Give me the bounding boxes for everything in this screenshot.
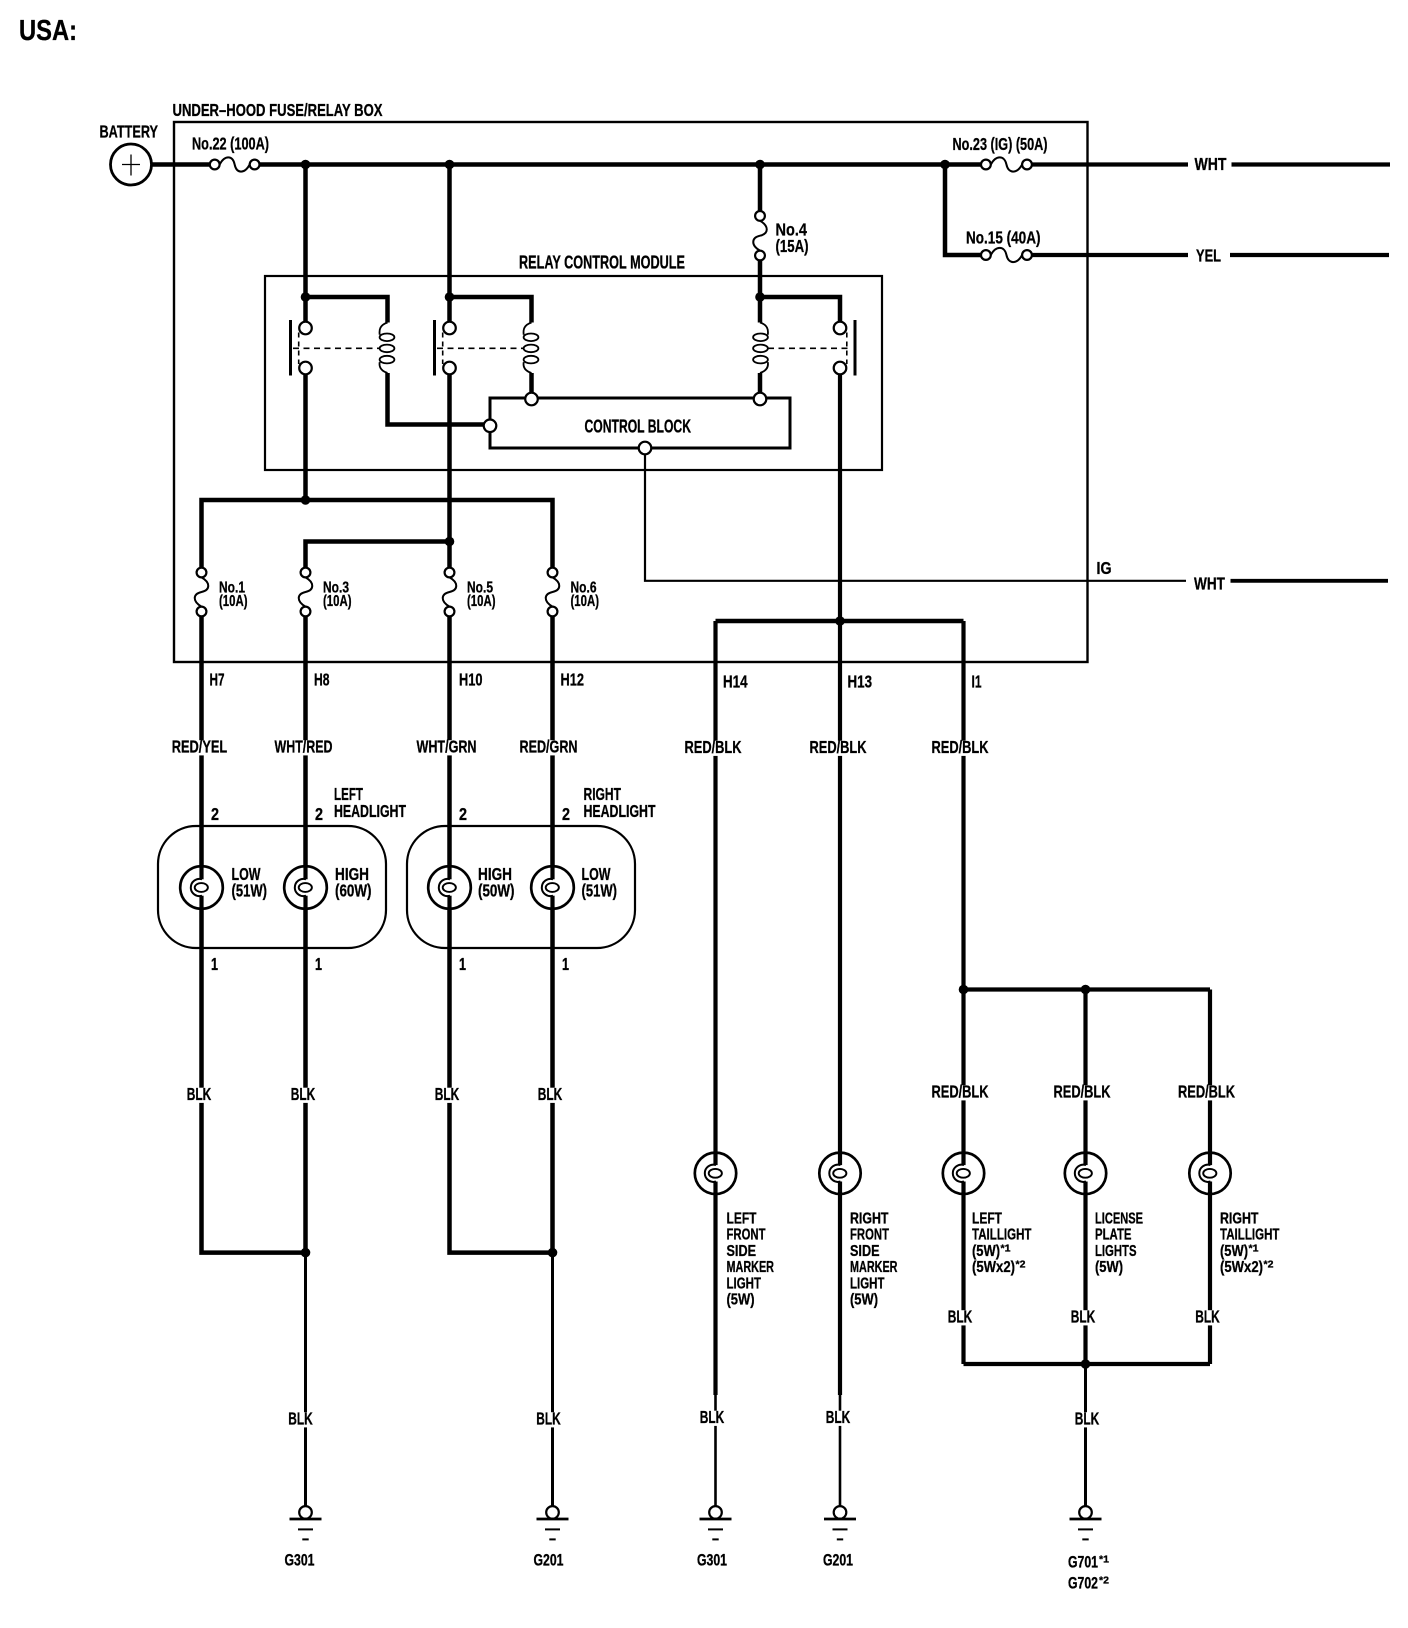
wire relay3 top to switch3 bbox=[760, 297, 840, 322]
svg-text:BLK: BLK bbox=[700, 1407, 725, 1427]
svg-text:H8: H8 bbox=[314, 670, 330, 690]
svg-text:2: 2 bbox=[211, 804, 219, 824]
svg-text:H13: H13 bbox=[848, 672, 873, 692]
svg-text:WHT: WHT bbox=[1194, 574, 1225, 594]
wire taillight ground bus bbox=[964, 1362, 1211, 1366]
node marker bus H13 bbox=[835, 616, 845, 626]
svg-text:LEFT: LEFT bbox=[727, 1211, 757, 1228]
fuse No.6 (10A) bbox=[548, 568, 558, 578]
svg-text:BLK: BLK bbox=[291, 1084, 316, 1104]
relay3 coil L3 bbox=[760, 323, 768, 335]
wire node-945 to fuse No.15 bbox=[945, 162, 981, 255]
wire label RED/BLK H14 bbox=[683, 741, 744, 756]
svg-text:2: 2 bbox=[459, 804, 467, 824]
wire label BLK right drop bbox=[534, 1412, 563, 1427]
relay control module box bbox=[265, 276, 882, 470]
wire label BLK left taillight bbox=[946, 1310, 975, 1325]
fuse No.23 (IG) (50A) bbox=[981, 160, 991, 170]
ground G201 marker bbox=[834, 1506, 847, 1519]
wire label BLK right taillight bbox=[1193, 1310, 1222, 1325]
svg-text:BLK: BLK bbox=[536, 1409, 561, 1429]
control block bbox=[490, 398, 790, 448]
svg-text:TAILLIGHT: TAILLIGHT bbox=[1220, 1227, 1280, 1244]
node bus-C bbox=[445, 160, 455, 170]
node fuse bus 1 bbox=[301, 495, 311, 505]
svg-text:H14: H14 bbox=[723, 672, 748, 692]
node bus-B bbox=[301, 160, 311, 170]
bulb right front side marker bbox=[819, 1153, 860, 1194]
svg-text:H10: H10 bbox=[459, 670, 483, 690]
relay1 switch bbox=[289, 320, 292, 376]
svg-text:FRONT: FRONT bbox=[850, 1227, 889, 1244]
svg-text:RED/BLK: RED/BLK bbox=[810, 737, 867, 757]
svg-text:1: 1 bbox=[459, 954, 466, 974]
svg-text:G301: G301 bbox=[285, 1552, 315, 1570]
wire coil2 to control block bbox=[529, 373, 534, 393]
under-hood fuse/relay box bbox=[174, 122, 1088, 662]
relay1 coil L1 bbox=[380, 323, 388, 335]
svg-text:*2: *2 bbox=[1264, 1259, 1274, 1271]
bulb right low bbox=[531, 866, 574, 909]
svg-text:FRONT: FRONT bbox=[727, 1227, 766, 1244]
svg-text:(10A): (10A) bbox=[467, 593, 496, 610]
svg-text:SIDE: SIDE bbox=[727, 1243, 757, 1260]
svg-text:H7: H7 bbox=[210, 670, 225, 690]
wire label BLK left drop bbox=[286, 1412, 315, 1427]
wire label RED/BLK license bbox=[1052, 1085, 1113, 1100]
svg-text:UNDER–HOOD FUSE/RELAY BOX: UNDER–HOOD FUSE/RELAY BOX bbox=[173, 100, 383, 120]
svg-text:MARKER: MARKER bbox=[850, 1259, 898, 1276]
wire label WHT/RED bbox=[273, 740, 335, 755]
fuse No.1 (10A) bbox=[197, 568, 207, 578]
wire fuse No.4 to relay3 bbox=[758, 261, 763, 323]
relay3 switch bbox=[854, 320, 857, 376]
node fuse bus 2 bbox=[445, 537, 455, 547]
wire relay2 top to coil2 bbox=[450, 297, 532, 323]
svg-text:No.23 (IG) (50A): No.23 (IG) (50A) bbox=[953, 134, 1048, 154]
svg-text:RIGHT: RIGHT bbox=[1220, 1211, 1259, 1228]
node rear bus left bbox=[959, 985, 969, 995]
wire coil1 to control block bbox=[388, 373, 484, 425]
relay2 coil L2 bbox=[524, 323, 532, 335]
wire trunk C from bus to relay2 switch bbox=[447, 165, 452, 322]
bulb right taillight bbox=[1189, 1153, 1230, 1194]
wire main power bus bbox=[260, 162, 982, 167]
svg-text:WHT/GRN: WHT/GRN bbox=[417, 737, 477, 757]
wire label RED/BLK H13 bbox=[808, 741, 869, 756]
svg-text:HEADLIGHT: HEADLIGHT bbox=[584, 801, 656, 821]
svg-text:RELAY CONTROL MODULE: RELAY CONTROL MODULE bbox=[519, 253, 685, 273]
bulb right high bbox=[428, 866, 471, 909]
svg-text:LIGHT: LIGHT bbox=[850, 1275, 885, 1292]
wire YEL out bbox=[1230, 253, 1389, 257]
svg-text:LICENSE: LICENSE bbox=[1095, 1211, 1143, 1228]
svg-text:RED/GRN: RED/GRN bbox=[520, 737, 578, 757]
wire rear feed bus bbox=[964, 987, 1211, 991]
pin control block top 2 bbox=[754, 393, 767, 406]
svg-text:BLK: BLK bbox=[435, 1084, 460, 1104]
svg-text:1: 1 bbox=[211, 954, 218, 974]
bulb left taillight bbox=[943, 1153, 984, 1194]
svg-text:1: 1 bbox=[562, 954, 569, 974]
wire label BLK marker left bbox=[698, 1411, 727, 1426]
wire battery to fuse No.22 bbox=[152, 162, 210, 167]
svg-text:G201: G201 bbox=[823, 1552, 853, 1570]
wire label BLK license bbox=[1069, 1310, 1098, 1325]
wire label RED/BLK I1 bbox=[930, 741, 991, 756]
relay2 dashed link bbox=[437, 347, 523, 349]
svg-text:(5Wx2): (5Wx2) bbox=[1220, 1259, 1263, 1276]
wire label BLK marker right bbox=[824, 1411, 853, 1426]
wire left taillight drop bbox=[961, 990, 965, 1365]
wire fuse bus 2 bbox=[306, 542, 450, 568]
wire H10 column bbox=[450, 616, 553, 1252]
svg-text:*1: *1 bbox=[1001, 1242, 1011, 1254]
fuse No.4 (15A) bbox=[755, 211, 765, 221]
wire I1 drop bbox=[961, 621, 965, 990]
svg-text:(15A): (15A) bbox=[776, 236, 809, 256]
svg-text:No.22 (100A): No.22 (100A) bbox=[192, 134, 269, 154]
wire relay1 switch down to fuse bus 1 bbox=[303, 374, 308, 500]
relay1 dashed link bbox=[293, 347, 379, 349]
svg-text:G701: G701 bbox=[1068, 1554, 1098, 1572]
wire bus to fuse No.4 bbox=[758, 165, 763, 211]
wire fuse No.15 to YEL bbox=[1032, 253, 1188, 257]
svg-text:*2: *2 bbox=[1099, 1575, 1109, 1587]
wire H7 column bbox=[202, 616, 306, 1252]
svg-text:BLK: BLK bbox=[826, 1407, 851, 1427]
svg-text:PLATE: PLATE bbox=[1095, 1227, 1132, 1244]
node relay1 top bbox=[301, 292, 311, 302]
svg-text:1: 1 bbox=[315, 954, 322, 974]
svg-text:(51W): (51W) bbox=[232, 881, 268, 901]
ground G201 headlight bbox=[546, 1506, 559, 1519]
svg-text:(5W): (5W) bbox=[1095, 1259, 1123, 1276]
node relay3 top bbox=[755, 292, 765, 302]
svg-text:WHT/RED: WHT/RED bbox=[275, 737, 333, 757]
svg-text:HEADLIGHT: HEADLIGHT bbox=[334, 801, 406, 821]
svg-text:LIGHTS: LIGHTS bbox=[1095, 1243, 1137, 1260]
wire H13 trunk bbox=[838, 374, 842, 1395]
wire marker bus bbox=[716, 619, 964, 624]
svg-text:No.15 (40A): No.15 (40A) bbox=[966, 228, 1041, 248]
wire label RED/GRN bbox=[518, 740, 580, 755]
svg-text:BLK: BLK bbox=[187, 1084, 212, 1104]
wire left headlight ground drop bbox=[304, 1253, 307, 1507]
wire label BLK taillight drop bbox=[1073, 1412, 1102, 1427]
wire relay1 top to coil1 bbox=[306, 297, 388, 323]
svg-text:TAILLIGHT: TAILLIGHT bbox=[972, 1227, 1032, 1244]
svg-text:I1: I1 bbox=[972, 672, 982, 692]
svg-text:YEL: YEL bbox=[1196, 246, 1221, 266]
svg-text:*1: *1 bbox=[1249, 1242, 1259, 1254]
svg-text:BLK: BLK bbox=[288, 1409, 313, 1429]
wire WHT ig out bbox=[1231, 579, 1389, 583]
svg-text:RED/BLK: RED/BLK bbox=[1178, 1082, 1235, 1102]
svg-text:(10A): (10A) bbox=[323, 593, 352, 610]
wire trunk B from bus to relay1 switch bbox=[303, 165, 308, 322]
wire H14 drop bbox=[713, 621, 717, 1395]
svg-text:G201: G201 bbox=[534, 1552, 564, 1570]
bulb left front side marker bbox=[695, 1153, 736, 1194]
svg-text:*2: *2 bbox=[1016, 1259, 1026, 1271]
node relay2 top bbox=[445, 292, 455, 302]
svg-text:(5W): (5W) bbox=[1220, 1243, 1248, 1260]
svg-text:BLK: BLK bbox=[1075, 1409, 1100, 1429]
wire relay2 switch down to fuse bus 2 bbox=[447, 374, 452, 567]
svg-text:(5W): (5W) bbox=[727, 1292, 755, 1309]
svg-text:H12: H12 bbox=[561, 670, 585, 690]
svg-text:(5Wx2): (5Wx2) bbox=[972, 1259, 1015, 1276]
wire WHT out bbox=[1232, 162, 1391, 166]
svg-text:(10A): (10A) bbox=[571, 593, 600, 610]
wire fuse No.23 to WHT bbox=[1032, 162, 1188, 166]
svg-text:MARKER: MARKER bbox=[727, 1259, 775, 1276]
wire taillight ground drop bbox=[1084, 1364, 1087, 1506]
pin control block bottom bbox=[639, 442, 652, 455]
wire right taillight drop bbox=[1208, 990, 1212, 1365]
fuse No.15 (40A) bbox=[981, 250, 991, 260]
svg-text:IG: IG bbox=[1097, 558, 1112, 578]
svg-text:BLK: BLK bbox=[1071, 1307, 1096, 1327]
svg-text:RED/YEL: RED/YEL bbox=[172, 737, 228, 757]
svg-text:RED/BLK: RED/BLK bbox=[932, 1082, 989, 1102]
wire fuse bus 1 bbox=[202, 500, 553, 567]
relay3 dashed link bbox=[768, 347, 852, 349]
wire coil3 to control block bbox=[758, 373, 763, 393]
wire control block to IG bbox=[645, 454, 1186, 580]
wire label RED/BLK right taillight bbox=[1176, 1085, 1237, 1100]
node taillight ground bus bbox=[1081, 1359, 1091, 1369]
svg-text:(5W): (5W) bbox=[850, 1292, 878, 1309]
svg-text:(5W): (5W) bbox=[972, 1243, 1000, 1260]
node bus-945 bbox=[940, 160, 950, 170]
svg-text:USA:: USA: bbox=[19, 15, 77, 47]
fuse No.22 (100A) bbox=[210, 160, 220, 170]
svg-text:(10A): (10A) bbox=[219, 593, 248, 610]
svg-text:BLK: BLK bbox=[1195, 1307, 1220, 1327]
wire label RED/BLK left taillight bbox=[930, 1085, 991, 1100]
svg-text:2: 2 bbox=[315, 804, 323, 824]
svg-text:2: 2 bbox=[562, 804, 570, 824]
fuse No.5 (10A) bbox=[445, 568, 455, 578]
svg-text:WHT: WHT bbox=[1195, 154, 1227, 174]
ground G301 marker bbox=[709, 1506, 722, 1519]
svg-text:*1: *1 bbox=[1099, 1554, 1109, 1566]
svg-text:(60W): (60W) bbox=[335, 881, 372, 901]
node headlight join right bbox=[548, 1248, 558, 1258]
svg-text:RED/BLK: RED/BLK bbox=[685, 737, 742, 757]
svg-text:RED/BLK: RED/BLK bbox=[932, 737, 989, 757]
svg-text:BLK: BLK bbox=[538, 1084, 563, 1104]
wire label RED/YEL bbox=[170, 740, 230, 755]
bulb license plate bbox=[1065, 1153, 1106, 1194]
wire H12 column bbox=[550, 616, 555, 1252]
svg-text:BATTERY: BATTERY bbox=[100, 122, 159, 142]
svg-text:CONTROL BLOCK: CONTROL BLOCK bbox=[585, 417, 692, 437]
svg-text:LEFT: LEFT bbox=[972, 1211, 1002, 1228]
wire license drop bbox=[1083, 990, 1087, 1365]
svg-text:RED/BLK: RED/BLK bbox=[1054, 1082, 1111, 1102]
svg-text:(51W): (51W) bbox=[582, 881, 618, 901]
node rear bus license bbox=[1081, 985, 1091, 995]
bulb left low bbox=[180, 866, 223, 909]
svg-text:BLK: BLK bbox=[948, 1307, 973, 1327]
pin control block top 1 bbox=[525, 393, 538, 406]
wire marker left ground tail bbox=[714, 1395, 717, 1506]
svg-text:RIGHT: RIGHT bbox=[850, 1211, 889, 1228]
battery B1 bbox=[111, 144, 152, 185]
left headlight box bbox=[158, 826, 386, 948]
svg-text:G702: G702 bbox=[1068, 1575, 1098, 1593]
svg-text:G301: G301 bbox=[697, 1552, 727, 1570]
wire right headlight ground drop bbox=[551, 1253, 554, 1507]
node headlight join left bbox=[301, 1248, 311, 1258]
right headlight box bbox=[407, 826, 635, 948]
svg-text:(50W): (50W) bbox=[478, 881, 515, 901]
wire label BLK headlight row bbox=[185, 1088, 214, 1103]
ground G301 headlight bbox=[299, 1506, 312, 1519]
node bus-E bbox=[755, 160, 765, 170]
svg-text:LIGHT: LIGHT bbox=[727, 1275, 762, 1292]
relay2 switch bbox=[433, 320, 436, 376]
svg-text:SIDE: SIDE bbox=[850, 1243, 880, 1260]
wire marker right ground tail bbox=[839, 1395, 842, 1506]
bulb left high bbox=[284, 866, 327, 909]
pin control block left bbox=[484, 420, 497, 433]
ground G701/G702 taillight bbox=[1079, 1506, 1092, 1519]
wire label WHT/GRN bbox=[415, 740, 479, 755]
fuse No.3 (10A) bbox=[301, 568, 311, 578]
wire H8 column bbox=[303, 616, 308, 1252]
